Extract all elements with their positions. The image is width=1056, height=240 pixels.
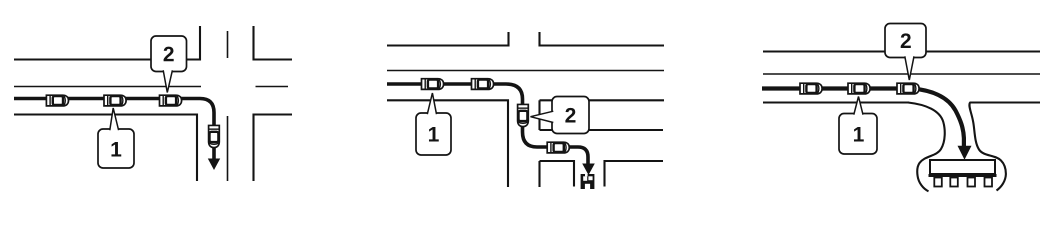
callout box 1 panel 2 (416, 93, 451, 155)
wire: horizontal road bottom edge, right segment with corner down (254, 115, 293, 182)
car D panel 2: in side street (547, 142, 569, 153)
goal flag icon (destination) (581, 174, 595, 189)
wire: top road bottom edge, right segment (540, 99, 665, 101)
wire: parking pocket left boundary curve (908, 103, 945, 192)
car C panel 3 (897, 83, 919, 94)
car D panel 1: vertical car heading down (209, 125, 220, 147)
arrow: route arrowhead pointing down into parking structure (958, 146, 972, 160)
arrow: route arrowhead pointing down (208, 159, 220, 171)
parking structure main rectangle (930, 160, 995, 174)
wire: horizontal road top edge, right segment (253, 58, 293, 60)
wire: horizontal road top edge, left segment (14, 58, 200, 60)
wire: top road top edge, right segment (539, 44, 665, 46)
wire: top road bottom edge, left segment with corner down vertical street left edge (387, 100, 508, 187)
wire: top road top edge, left segment (387, 44, 510, 46)
parking structure foot 3 (968, 178, 976, 187)
wire: road bottom edge right segment (970, 101, 1041, 103)
wire: vertical road right edge above intersection (252, 26, 254, 61)
route: thick route turning down, along vertical street then right into side street, arrow into driveway (387, 84, 588, 164)
wire: side street top edge (540, 129, 664, 131)
arrow: route arrowhead pointing down into driveway (582, 164, 595, 176)
car B panel 3 (848, 83, 870, 94)
car A panel 2 (422, 79, 444, 90)
wire: horizontal road center line, right segment (256, 86, 289, 88)
car A panel 1 (46, 95, 68, 106)
parking structure foot 1 (934, 178, 942, 187)
wire: vertical street right edge above road (538, 32, 540, 47)
car C panel 1 (160, 95, 182, 106)
wire: side street bottom edge left segment (540, 161, 575, 187)
wire: road center line (763, 73, 1040, 75)
parking structure foot 4 (985, 178, 993, 187)
route: thick route sweeping down into parking area (762, 89, 964, 148)
car B panel 1 (104, 95, 126, 106)
wire: top road center line, continuous (387, 70, 664, 72)
car C panel 2: vertical car heading down (518, 104, 529, 126)
wire: vertical road center line below intersection (227, 116, 229, 181)
wire: horizontal road bottom edge, left segment with corner down (14, 115, 197, 182)
parking structure base slab (929, 174, 997, 177)
wire: vertical street left edge above road (507, 32, 509, 47)
wire: vertical street right edge between road and side street (538, 100, 540, 130)
wire: vertical street right edge below side street (538, 161, 540, 187)
parking structure foot 2 (950, 178, 958, 187)
wire: vertical road left edge above intersection (199, 26, 201, 61)
callout box 1 panel 3 (839, 97, 877, 155)
wire: road bottom edge left segment (763, 101, 909, 103)
route: thick driving route turning down at intersection (14, 99, 214, 160)
car A panel 3 (800, 83, 822, 94)
callout box 2 panel 1 (151, 36, 187, 93)
wire: parking pocket right boundary curve (969, 103, 1006, 191)
callout box 1 panel 1 (98, 108, 134, 168)
wire: horizontal road center line, left segment (14, 86, 201, 88)
callout box 2 panel 2 (531, 97, 590, 134)
wire: road top edge (763, 50, 1040, 52)
car B panel 2 (472, 79, 494, 90)
wire: vertical road center line above intersection (227, 31, 229, 58)
callout box 2 panel 3 (885, 24, 926, 81)
wire: side street bottom edge right segment with driveway corner (605, 161, 664, 187)
